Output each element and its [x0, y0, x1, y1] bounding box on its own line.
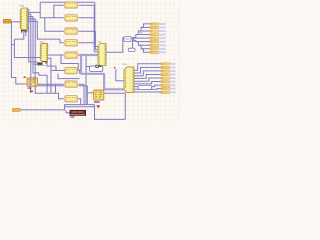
- red mark left of U5: [24, 77, 26, 79]
- label text above U3: [98, 41, 102, 42]
- wire fan B row 8: [134, 88, 161, 91]
- register D6: [65, 68, 77, 74]
- wire U1 pin6 to mux U2 pin C: [28, 21, 60, 39]
- wire fan B row 1: [134, 64, 161, 71]
- wire D1 right to trunk: [78, 5, 98, 46]
- label box W2 at nexus: [124, 37, 131, 42]
- wire between D6 and D7: [58, 74, 80, 79]
- wire net to D3 left: [45, 18, 64, 32]
- probe Q2: [161, 66, 176, 68]
- stack B probes Q1-Q9: [161, 63, 176, 94]
- probe P2: [150, 26, 166, 28]
- probe Q6: [161, 81, 176, 83]
- wire D4 right to trunk: [78, 42, 95, 44]
- label text above U2: [40, 42, 44, 43]
- register D7: [65, 81, 77, 87]
- dark pin marks below U3: [96, 65, 99, 67]
- wire fan B row 3: [134, 71, 161, 76]
- wire nexus cluster: [133, 37, 136, 42]
- stack A fan wires: [133, 24, 150, 52]
- probe Q5: [161, 77, 176, 79]
- register D1: [65, 2, 77, 8]
- red mark under U5: [30, 90, 33, 92]
- wire net to D4 left: [60, 39, 64, 43]
- wire fan A row 5: [134, 37, 150, 39]
- wire fan A row 6: [136, 41, 150, 43]
- label text above U1: [20, 5, 25, 6]
- wire bottom bus from probe P0: [20, 105, 94, 110]
- RAM dark box: [70, 110, 86, 115]
- wire net to D2 left: [40, 17, 64, 19]
- orange mark at U2 top-left: [41, 44, 42, 45]
- wire input IN1 to U1: [11, 21, 20, 23]
- blue label under U5: [28, 88, 32, 89]
- probe Q4: [161, 74, 176, 76]
- decoder U1: [20, 8, 27, 30]
- wire thick U6 top feed: [103, 88, 105, 91]
- probe Q7: [161, 84, 176, 86]
- blue label under U6: [94, 101, 100, 102]
- wire fan A rising cascade: [133, 24, 150, 38]
- wire U1 bottom pin bridge: [12, 30, 41, 58]
- wire D2 right to trunk: [78, 17, 94, 19]
- wire U2 bottom pin staircase to D6: [47, 62, 56, 71]
- wire D6 right down join: [78, 71, 80, 74]
- wire stub below D7 line: [55, 84, 57, 93]
- probe Q9: [161, 91, 176, 93]
- wire U2 right pin stubs: [48, 46, 49, 52]
- wire stub to label W3: [86, 66, 90, 68]
- wire U3 right loop to stack A nexus: [106, 38, 135, 53]
- register D5: [65, 52, 77, 58]
- register D8: [65, 96, 77, 102]
- input pin IN1: [3, 19, 11, 23]
- wire fan B row 7: [134, 85, 161, 87]
- wire fan B row 5: [134, 78, 161, 81]
- wire D8 right down to bus: [78, 99, 81, 105]
- probe Q8: [161, 88, 176, 90]
- wire crossing over U5: [31, 78, 35, 86]
- wire fan B row 4: [134, 75, 161, 79]
- wire D3 right to trunk: [78, 31, 98, 49]
- wire RAM left stub: [66, 110, 70, 113]
- wire fan A row 3: [138, 30, 149, 32]
- wire fan B row 9: [134, 91, 161, 93]
- label box W1 near stack B: [138, 86, 151, 90]
- wire bottom loop to U4: [95, 105, 126, 120]
- wire U5 top pin stub2: [33, 77, 35, 78]
- wire U1 pin2 loop over top to trunk: [28, 2, 95, 46]
- chip U6: [94, 90, 104, 100]
- wire glyph under U2 lead: [33, 64, 47, 93]
- wire U1 right pin stubs: [28, 25, 29, 29]
- register D3: [65, 28, 77, 34]
- probe P4: [150, 34, 166, 36]
- probe P6: [150, 41, 166, 43]
- wire thick bus down from bundle to U4 via U6 top: [81, 56, 124, 90]
- red symbol under U6: [97, 105, 100, 108]
- wire fan A row 8: [141, 48, 150, 50]
- wire U5 right to D7 left: [38, 83, 64, 85]
- wire net to D1 left: [54, 5, 64, 18]
- wire fan A row 7: [138, 44, 149, 46]
- wire U6 right to U4 bottom net: [104, 93, 125, 120]
- wire U2 pin to D6 left staircase: [48, 58, 66, 93]
- wire input IN1 down to U5 left: [11, 22, 27, 84]
- wire D7 right down to bus: [78, 55, 86, 105]
- label box W4 below nexus: [128, 48, 135, 51]
- wire fan B row 2: [134, 67, 161, 73]
- stack A probes P1-P9: [150, 23, 166, 54]
- wire trunk stub3: [94, 47, 98, 52]
- probe P8: [150, 48, 166, 50]
- wire U1 pin3 to mux U2 pin A: [28, 14, 31, 78]
- mux U3: [98, 43, 106, 65]
- dark pin marks below U1: [21, 30, 27, 32]
- red mark left of U4: [114, 67, 116, 69]
- wire U3 right pin stubs: [106, 47, 107, 59]
- wire U6 left stub: [78, 86, 93, 105]
- chip U5: [27, 78, 38, 86]
- orange mark below U2: [45, 62, 47, 64]
- mux U2: [40, 44, 47, 62]
- wire U1 pin5 down through U5 to D8 feed: [28, 19, 64, 99]
- mux U4: [124, 67, 134, 93]
- wire branch near D5: [61, 55, 78, 71]
- probe Q1: [161, 63, 176, 65]
- probe P9: [150, 51, 166, 53]
- register D2: [65, 15, 77, 21]
- wire second bus line above RAM: [65, 106, 94, 108]
- label box W3 under U3: [90, 66, 103, 71]
- wire thick D5 to U3 left: [78, 54, 98, 56]
- stack B fan wires: [134, 64, 161, 92]
- register D4: [65, 40, 77, 46]
- probe P5: [150, 37, 166, 39]
- wire U5 right pin2 to D7: [38, 85, 64, 87]
- wire fan B row 6: [134, 82, 161, 84]
- wire U2 to D5 left: [48, 54, 64, 56]
- wire red-marked net to U4 left: [116, 69, 124, 81]
- wire fan A row 4: [136, 34, 150, 36]
- background grid: [0, 0, 180, 124]
- wire U1 pin4 to mux U2 pin B: [28, 17, 37, 65]
- wire U1 pin1 down to U5 top: [28, 10, 38, 62]
- probe P7: [150, 44, 166, 46]
- wire fan A row 2: [141, 26, 150, 28]
- grey label above nexus: [139, 32, 143, 33]
- blue label under RAM: [70, 116, 74, 117]
- probe P1: [150, 23, 166, 25]
- probe P3: [150, 30, 166, 32]
- wire U5 bottom stub to red mark: [29, 86, 31, 93]
- probe Q3: [161, 70, 176, 72]
- probe P0 bottom left: [12, 108, 20, 111]
- wire U1 bottom pin stub: [21, 30, 23, 33]
- wire fan A falling cascade: [134, 41, 150, 52]
- label text above U4: [123, 64, 127, 65]
- dark glyph under U2: [37, 62, 45, 65]
